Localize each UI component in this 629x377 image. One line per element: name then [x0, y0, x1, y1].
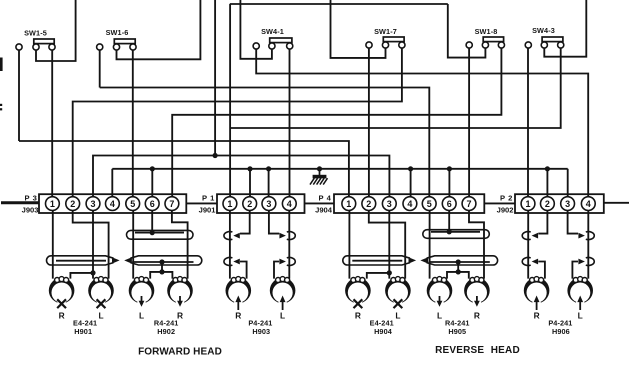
connector P 2 pin 4	[581, 197, 595, 211]
node shield C tap	[159, 259, 164, 264]
node H902 centre tap	[159, 269, 164, 274]
head H902-L play arrow (down)	[141, 296, 143, 303]
head H906-R record arrow (up)	[536, 300, 538, 310]
svg-text:7: 7	[169, 199, 174, 209]
wire to P3 pin 6	[151, 169, 153, 197]
wire P3 pin 1 to H901-R	[52, 210, 54, 278]
connector P 4 pin 7	[462, 197, 476, 211]
node P4 pin 4 junction	[408, 166, 413, 171]
wire P2 pin 1 to H906-R	[527, 210, 529, 278]
wire P1 pin 1 riser	[229, 4, 231, 197]
wire to P1 pin 2	[249, 169, 251, 197]
wire to P4 pin 6	[448, 169, 450, 197]
svg-text:H903: H903	[252, 327, 270, 336]
wire shield C tap link	[161, 262, 163, 272]
wire P1 pin 2 to shield loop	[240, 210, 250, 233]
node shield A' tap	[447, 229, 452, 234]
wire P2 pin 2 to shield loop	[538, 210, 547, 233]
wire shield loop to H906-L left	[572, 262, 578, 279]
connector P 3 pin 7	[165, 197, 179, 211]
shield loop on P1 pin4 wire (upper)	[287, 232, 295, 240]
shield oval A'	[423, 230, 490, 239]
switch SW4-3 terminal B	[541, 42, 547, 48]
svg-text:L: L	[280, 310, 285, 320]
node P3 pin 6 junction	[150, 166, 155, 171]
svg-text:R: R	[534, 310, 540, 320]
connector P 4 pin 2	[362, 197, 376, 211]
shield oval C'	[427, 256, 498, 265]
wire P3 pin 7 to H902-R right	[172, 210, 188, 278]
wire bus SW4-1 A to P2 pin 4	[256, 49, 588, 197]
wire P3 pin 5 to H902-L	[132, 210, 134, 278]
connector P 3 pin 5	[126, 197, 140, 211]
switch SW1-5 terminal B	[33, 44, 39, 50]
svg-text:L: L	[395, 310, 400, 320]
shield loop on P2 pin1 wire (lower)	[522, 258, 530, 266]
svg-text:SW1-5: SW1-5	[24, 29, 47, 38]
wire shield C drain	[132, 261, 193, 263]
switch SW4-3 bar	[542, 37, 563, 42]
head H906-R coil	[524, 278, 550, 304]
wire shield A' drain	[431, 231, 480, 233]
node P1 pin 2 junction	[247, 166, 252, 171]
svg-text:2: 2	[70, 199, 75, 209]
svg-text:P 1: P 1	[202, 194, 215, 203]
connector P 4 pin 1	[342, 197, 356, 211]
head H905-L coil	[427, 278, 453, 304]
connector P 1 pin 3	[262, 197, 276, 211]
wire P3 pin 6 to shield	[151, 210, 153, 232]
svg-text:1: 1	[50, 199, 55, 209]
left edge artifact mark	[0, 58, 3, 72]
switch SW1-6 bar	[114, 39, 135, 44]
connector P 3 pin 3	[86, 197, 100, 211]
svg-text:4: 4	[586, 199, 591, 209]
switch SW1-8 terminal B	[482, 42, 488, 48]
svg-text:3: 3	[90, 199, 95, 209]
svg-text:4: 4	[287, 199, 292, 209]
switch SW1-6 terminal C	[130, 44, 136, 50]
connector P 3 pin 1	[46, 197, 60, 211]
connector P 4 pin 4	[403, 197, 417, 211]
connector P 4 pin 6	[442, 197, 456, 211]
svg-text:L: L	[139, 310, 144, 320]
svg-text:R: R	[355, 310, 361, 320]
head H901-L coil	[88, 278, 114, 304]
svg-text:6: 6	[447, 199, 452, 209]
switch SW4-1 terminal B	[269, 43, 275, 49]
svg-text:P 2: P 2	[500, 194, 513, 203]
svg-text:4: 4	[407, 199, 412, 209]
head H904-L erase X mark	[394, 299, 403, 308]
switch SW1-8 terminal C	[498, 42, 504, 48]
svg-text:H905: H905	[448, 327, 466, 336]
svg-text:SW4-1: SW4-1	[261, 27, 284, 36]
wire to P2 pin 2	[546, 169, 548, 197]
wire P3 pin 3 down	[92, 210, 94, 278]
svg-text:5: 5	[427, 199, 432, 209]
svg-text:1: 1	[525, 199, 530, 209]
svg-text:R: R	[474, 310, 480, 320]
wire P4 pin 7 to H905-R right	[469, 210, 484, 278]
connector P 2 pin 1	[521, 197, 535, 211]
wire SW1-7 B to top exit	[331, 0, 386, 58]
svg-text:J901: J901	[199, 206, 217, 215]
node P2 pin 2 junction	[545, 166, 550, 171]
wire shield A drain	[135, 232, 184, 234]
node P1 pin 3 junction	[266, 166, 271, 171]
svg-text:3: 3	[565, 199, 570, 209]
wire P4 pin 3 down	[388, 210, 390, 278]
wire P4-P2 link	[484, 202, 515, 204]
shield loop on P2 pin1 wire (upper)	[522, 232, 530, 240]
svg-text:1: 1	[346, 199, 351, 209]
switch SW1-5 terminal A	[16, 44, 22, 50]
wire SW1-5 A stem	[18, 50, 20, 141]
wire tap to H902-R left	[162, 272, 172, 279]
node H905 centre tap	[456, 269, 461, 274]
wire P3 pin 2 to H901-L right	[73, 210, 109, 278]
switch SW1-6 terminal A	[97, 44, 103, 50]
node H904 centre tap	[387, 270, 392, 275]
switch SW4-1 terminal A	[253, 43, 259, 49]
wire top bus to SW1-8 B	[230, 3, 448, 5]
switch SW4-3 terminal C	[558, 42, 564, 48]
svg-text:SW1-6: SW1-6	[106, 28, 129, 37]
wire to P1 pin 3	[268, 169, 270, 197]
shield oval A	[127, 230, 194, 239]
wire P4 pin 6 to shield	[448, 210, 450, 231]
wire SW4-1 B to top exit	[240, 0, 272, 59]
connector P 4 box	[334, 194, 484, 213]
wire P4 pin 2 to H904-L right	[369, 210, 405, 278]
wire shield loop to H906-R right	[538, 262, 545, 279]
connector P 1 pin 2	[243, 197, 257, 211]
svg-text:H902: H902	[157, 327, 175, 336]
head H906-L record arrow (up)	[579, 300, 581, 310]
svg-text:2: 2	[545, 199, 550, 209]
head H903-L record arrow (up)	[282, 300, 284, 310]
switch SW1-8 terminal A	[466, 42, 472, 48]
head H901-R erase X mark	[57, 299, 66, 308]
wire bus SW1-5 A to P4 pin 1	[19, 141, 349, 197]
wire shield loop to H903-R right	[240, 262, 247, 279]
shield loop on P1 pin1 wire (upper)	[224, 232, 232, 240]
wire P4 pin 1 to H904-R	[348, 210, 350, 278]
node H901 centre tap	[90, 270, 95, 275]
connector P 2 pin 3	[561, 197, 575, 211]
wire ground bus to P2 pin 3	[567, 169, 569, 197]
wire P1 pin 3 to shield loop	[269, 210, 279, 233]
svg-text:H906: H906	[552, 327, 570, 336]
shield loop on P2 pin4 wire (lower)	[586, 258, 594, 266]
wire SW1-6 A stem	[99, 50, 101, 88]
switch SW1-8 bar	[483, 37, 503, 42]
wire SW1-8 B link	[448, 4, 486, 58]
connector P 4 pin 3	[382, 197, 396, 211]
svg-text:3: 3	[387, 199, 392, 209]
head H902-R play arrow (down)	[179, 296, 181, 303]
switch SW4-3 terminal A	[525, 42, 531, 48]
svg-text:6: 6	[150, 199, 155, 209]
wire P4 pin 5 to H905-L	[429, 210, 431, 278]
wire bus P3 pin 7 to SW1-8 C	[172, 48, 501, 197]
switch SW1-7 terminal B	[382, 42, 388, 48]
svg-text:L: L	[437, 310, 442, 320]
switch SW4-1 terminal C	[287, 43, 293, 49]
head H905-R coil	[464, 278, 490, 304]
head H903-R record arrow (up)	[237, 300, 239, 310]
svg-text:SW4-3: SW4-3	[532, 26, 555, 35]
wire SW4-1 C to P1 pin 4	[289, 49, 291, 197]
connector P 3 pin 6	[145, 197, 159, 211]
head H904-R erase X mark	[354, 299, 363, 308]
head H903-L coil	[270, 278, 296, 304]
connector P 4 pin 5	[422, 197, 436, 211]
connector P 1 box	[217, 194, 305, 213]
svg-text:R: R	[59, 310, 65, 320]
wire top exit to node	[214, 0, 216, 156]
shield loop on P2 pin4 wire (upper)	[586, 232, 594, 240]
svg-text:2: 2	[366, 199, 371, 209]
shield oval B'	[343, 256, 410, 265]
node ground tap junction	[317, 166, 322, 171]
connector P 2 pin 2	[541, 197, 555, 211]
head H905-L play arrow (down)	[439, 296, 441, 303]
left edge small mark	[0, 104, 2, 106]
wire ground bus to P3 pin 4	[111, 169, 113, 197]
node junction x215 on bus	[213, 153, 218, 158]
svg-text:4: 4	[110, 199, 115, 209]
wire P1 pin 1 to H903-R	[229, 210, 231, 278]
shield loop on P1 pin4 wire (lower)	[287, 258, 295, 266]
connector P 1 pin 4	[282, 197, 296, 211]
svg-text:P 4: P 4	[318, 194, 331, 203]
head H904-R coil	[345, 278, 371, 304]
head H904-L coil	[385, 278, 411, 304]
head H902-R coil	[167, 278, 193, 304]
switch SW1-7 terminal A	[366, 42, 372, 48]
wire bus P3 pin 2 to SW1-7 C	[73, 48, 402, 197]
wire shield loop to H903-L left	[274, 262, 279, 279]
wire ground bus	[112, 168, 567, 170]
wire SW4-3 B to top exit	[544, 0, 586, 57]
wire SW1-5 B to top exit	[36, 0, 76, 61]
wire P2 pin 3 to shield loop	[568, 210, 578, 233]
wire SW1-8 A to P4 pin 7	[468, 48, 470, 197]
node shield C' tap	[456, 259, 461, 264]
svg-text:L: L	[98, 310, 103, 320]
wire shield B' drain	[352, 260, 402, 262]
connector P 3 pin 2	[66, 197, 80, 211]
svg-text:R: R	[235, 310, 241, 320]
connector P 3 box	[39, 194, 186, 213]
ground	[319, 169, 321, 175]
svg-text:J904: J904	[315, 206, 333, 215]
svg-text:5: 5	[130, 199, 135, 209]
wire P1-P4 link	[305, 202, 335, 204]
connector P 3 pin 4	[106, 197, 120, 211]
switch SW1-6 terminal B	[113, 44, 119, 50]
svg-text:1: 1	[227, 199, 232, 209]
wire shield C' tap link	[457, 262, 459, 272]
wire bus P3 pin 3 to P4 pin 3	[93, 156, 389, 197]
wire shield C' drain	[429, 261, 490, 263]
svg-text:H901: H901	[74, 327, 92, 336]
wire to P4 pin 4	[410, 169, 412, 197]
shield oval C	[130, 256, 201, 265]
svg-text:SW1-8: SW1-8	[475, 27, 498, 36]
switch SW1-7 terminal C	[399, 42, 405, 48]
node P4 pin 6 junction	[447, 166, 452, 171]
svg-text:H904: H904	[374, 327, 393, 336]
switch SW1-5 terminal C	[49, 44, 55, 50]
svg-text:SW1-7: SW1-7	[374, 27, 397, 36]
node shield A tap	[150, 230, 155, 235]
head H901-R coil	[49, 278, 75, 304]
wire P1 pin 4 to H903-L	[288, 210, 290, 278]
connector P 2 box	[515, 194, 604, 213]
wire bus P1 pin 1 to SW4-3 C	[230, 48, 561, 128]
wire P2 pin 4 to H906-L	[587, 210, 589, 278]
wire tap to H901-R right	[70, 273, 93, 279]
wire SW1-6 C to P3 pin 5	[132, 50, 134, 197]
wire J903 external lead	[1, 201, 39, 204]
wire SW1-5 C to P3 pin 1	[51, 50, 53, 197]
svg-text:L: L	[578, 310, 583, 320]
wire bus SW1-6 A to P4 pin 5	[100, 88, 430, 197]
switch SW1-7 bar	[383, 37, 404, 42]
switch SW4-1 bar	[270, 38, 292, 43]
head H906-L coil	[567, 278, 593, 304]
svg-text:P 3: P 3	[24, 194, 37, 203]
head H903-R coil	[226, 278, 252, 304]
svg-text:2: 2	[247, 199, 252, 209]
head H905-R play arrow (down)	[476, 296, 478, 303]
svg-text:REVERSE HEAD: REVERSE HEAD	[435, 345, 520, 356]
shield loop on P1 pin1 wire (lower)	[224, 258, 232, 266]
wire P2 external lead	[604, 202, 629, 204]
svg-text:J903: J903	[22, 206, 39, 215]
wire tap to H905-L right	[447, 272, 458, 279]
svg-text:J902: J902	[497, 206, 514, 215]
head H902-L coil	[129, 278, 155, 304]
head H901-L erase X mark	[97, 299, 106, 308]
wire tap to H902-L right	[150, 272, 162, 279]
wire P3-P1 link	[186, 202, 217, 204]
switch SW1-5 bar	[34, 39, 54, 44]
connector P 1 pin 1	[223, 197, 237, 211]
wire tap to H905-R left	[458, 272, 469, 279]
svg-text:7: 7	[466, 199, 471, 209]
wire SW1-7 A to P4 pin 2	[368, 48, 370, 197]
svg-text:FORWARD HEAD: FORWARD HEAD	[138, 347, 222, 358]
svg-text:3: 3	[266, 199, 271, 209]
wire tap to H904-R right	[367, 273, 390, 279]
shield oval B	[47, 256, 114, 265]
wire SW4-3 A to P2 pin 1	[527, 48, 529, 197]
wire shield B drain	[56, 260, 106, 262]
wire SW1-6 B to top exit	[117, 0, 201, 59]
